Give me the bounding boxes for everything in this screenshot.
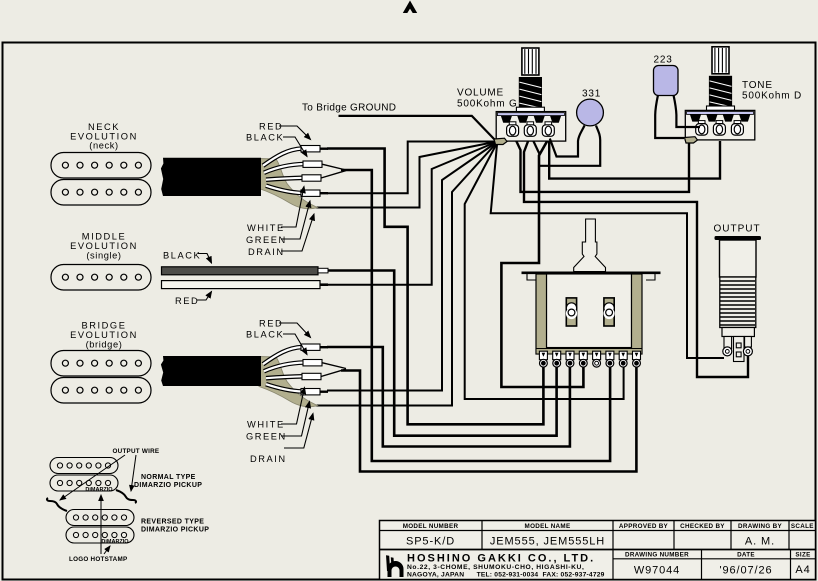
label neck WHITE with arrow bbox=[247, 187, 304, 234]
output jack threaded section bbox=[720, 277, 756, 328]
svg-text:To Bridge GROUND: To Bridge GROUND bbox=[302, 103, 396, 114]
label TONE 500Kohm D bbox=[742, 80, 802, 102]
svg-text:DiMARZIO: DiMARZIO bbox=[85, 487, 113, 493]
svg-text:BLACK: BLACK bbox=[246, 133, 284, 143]
label bridge pickup name bbox=[70, 321, 138, 350]
svg-text:OUTPUT: OUTPUT bbox=[714, 224, 761, 235]
normal type DiMarzio pickup drawing bbox=[50, 458, 118, 494]
svg-text:SP5-K/D: SP5-K/D bbox=[406, 536, 455, 548]
switch lug 5 bbox=[593, 351, 601, 367]
svg-text:500Kohm G: 500Kohm G bbox=[457, 99, 518, 110]
output jack collar bbox=[722, 328, 754, 337]
svg-text:RED: RED bbox=[175, 296, 199, 306]
svg-text:DiMARZIO: DiMARZIO bbox=[101, 539, 129, 545]
svg-text:A. M.: A. M. bbox=[745, 536, 775, 548]
reversed pickup output wire squiggle bbox=[47, 498, 67, 511]
svg-text:OUTPUT WIRE: OUTPUT WIRE bbox=[113, 448, 160, 455]
label neck RED with arrow bbox=[259, 122, 311, 140]
svg-text:WHITE: WHITE bbox=[247, 223, 285, 233]
title block outer frame bbox=[380, 521, 816, 580]
label bridge RED with arrow bbox=[259, 319, 311, 338]
switch lug 8 bbox=[633, 351, 641, 367]
svg-text:'96/07/26: '96/07/26 bbox=[719, 565, 772, 577]
wire neck green to volume ground lug (fan line 1) bbox=[327, 142, 494, 194]
potentiometer VOLUME 500Kohm G shaft bbox=[516, 48, 544, 112]
svg-text:DIMARZIO PICKUP: DIMARZIO PICKUP bbox=[141, 527, 209, 534]
switch lug 3 bbox=[566, 351, 574, 367]
label bridge WHITE with arrow bbox=[247, 388, 305, 430]
capacitor C223 film bbox=[654, 66, 701, 139]
cable neck pickup shield braid bbox=[259, 159, 318, 209]
svg-text:GREEN: GREEN bbox=[246, 235, 287, 245]
potentiometer VOLUME 500Kohm G body bbox=[496, 112, 566, 142]
label NORMAL TYPE DIMARZIO PICKUP bbox=[134, 474, 202, 489]
svg-text:EVOLUTION: EVOLUTION bbox=[70, 241, 138, 251]
title block grid lines bbox=[380, 521, 816, 580]
wire volume lug3 to switch lug4 bbox=[501, 137, 583, 387]
svg-text:TONE: TONE bbox=[742, 80, 773, 91]
label neck GREEN with arrow bbox=[246, 201, 310, 245]
svg-text:EVOLUTION: EVOLUTION bbox=[70, 330, 138, 340]
svg-text:DRAIN: DRAIN bbox=[248, 247, 285, 257]
svg-text:SIZE: SIZE bbox=[795, 552, 810, 559]
svg-text:223: 223 bbox=[654, 55, 673, 66]
volume ground solder lug bbox=[494, 138, 507, 144]
pickup MIDDLE EVOLUTION single coil bbox=[51, 265, 151, 291]
svg-text:500Kohm D: 500Kohm D bbox=[742, 91, 802, 102]
svg-text:REVERSED TYPE: REVERSED TYPE bbox=[141, 519, 204, 526]
output jack barrel bbox=[720, 240, 757, 277]
svg-text:BLACK: BLACK bbox=[163, 251, 201, 261]
svg-text:DRAWING NUMBER: DRAWING NUMBER bbox=[625, 552, 689, 559]
label bridge GREEN with arrow bbox=[246, 402, 310, 442]
wire volume ground lug to volume lug1 link bbox=[504, 132, 513, 141]
svg-text:GREEN: GREEN bbox=[246, 432, 287, 442]
wire middle black to switch lug2 bbox=[328, 271, 557, 436]
label neck pickup name bbox=[70, 122, 138, 151]
label neck BLACK with arrow bbox=[246, 133, 307, 157]
potentiometer TONE 500Kohm D shaft bbox=[707, 47, 735, 111]
switch contact slot A bbox=[566, 298, 577, 326]
svg-text:VOLUME: VOLUME bbox=[457, 88, 504, 99]
title block header texts bbox=[403, 523, 814, 559]
switch lug strip base bbox=[536, 349, 642, 355]
headstock direction arrow bbox=[403, 1, 417, 14]
svg-text:WHITE: WHITE bbox=[247, 420, 285, 430]
cable bridge pickup shield braid bbox=[259, 357, 318, 407]
label neck DRAIN with arrow bbox=[248, 214, 314, 257]
wire volume ground lug to output jack sleeve (fan line 7) bbox=[491, 145, 724, 359]
svg-text:BLACK: BLACK bbox=[246, 330, 284, 340]
svg-text:DRAWING BY: DRAWING BY bbox=[738, 523, 782, 530]
cable bridge pickup leads bbox=[263, 344, 346, 395]
svg-text:DATE: DATE bbox=[737, 552, 755, 559]
pickup BRIDGE EVOLUTION humbucker bbox=[51, 351, 151, 404]
switch lug 7 bbox=[619, 351, 627, 367]
wire neck drain to volume ground lug (fan line 2) bbox=[310, 142, 495, 208]
output jack flange bbox=[715, 236, 762, 240]
svg-text:JEM555, JEM555LH: JEM555, JEM555LH bbox=[490, 536, 605, 548]
wire neck red to switch lug1 bbox=[327, 149, 543, 425]
output jack sleeve prong bbox=[723, 337, 732, 356]
label bridge BLACK with arrow bbox=[246, 330, 307, 355]
wire bridge drain to volume ground lug (fan line 5) bbox=[310, 144, 496, 406]
cable bridge pickup jacket bbox=[161, 356, 261, 386]
svg-text:(neck): (neck) bbox=[89, 141, 118, 151]
svg-text:NECK: NECK bbox=[88, 122, 120, 132]
5-way switch lever bbox=[574, 219, 606, 272]
wire bridge green to volume ground lug (fan line 4) bbox=[327, 143, 496, 391]
svg-text:CHECKED BY: CHECKED BY bbox=[680, 523, 725, 530]
svg-text:No.22, 3-CHOME, SHUMOKU-CHO, H: No.22, 3-CHOME, SHUMOKU-CHO, HIGASHI-KU, bbox=[407, 564, 584, 571]
pickup NECK EVOLUTION humbucker bbox=[51, 153, 151, 206]
svg-text:BRIDGE: BRIDGE bbox=[82, 321, 127, 331]
output jack middle prong bbox=[734, 337, 745, 362]
Hoshino Gakki logo bbox=[386, 555, 404, 577]
svg-text:SCALE: SCALE bbox=[791, 523, 814, 530]
label REVERSED TYPE DIMARZIO PICKUP bbox=[141, 519, 209, 534]
svg-text:DRAIN: DRAIN bbox=[250, 454, 287, 464]
switch lug 4 bbox=[579, 351, 587, 367]
switch side post left bbox=[536, 274, 547, 354]
wire volume lug2 to tone middle lug bbox=[549, 136, 720, 179]
capacitor C331 disc bbox=[539, 99, 603, 166]
normal pickup output wire squiggle bbox=[116, 490, 136, 503]
label middle BLACK with arrow bbox=[163, 251, 212, 264]
svg-text:MODEL NUMBER: MODEL NUMBER bbox=[403, 523, 459, 530]
wire bridge black+white merged to switch lug8 bbox=[341, 364, 636, 472]
label middle pickup name bbox=[70, 232, 138, 261]
svg-text:A4: A4 bbox=[795, 564, 810, 576]
potentiometer TONE 500Kohm D body bbox=[685, 110, 755, 139]
wire volume lug2 to output jack tip bbox=[524, 136, 748, 377]
label VOLUME 500Kohm G bbox=[457, 88, 518, 110]
svg-text:MODEL NAME: MODEL NAME bbox=[525, 523, 571, 530]
middle pickup black wire bar bbox=[162, 267, 329, 275]
switch side post right bbox=[632, 274, 643, 354]
label middle RED with arrow bbox=[175, 292, 212, 307]
svg-text:MIDDLE: MIDDLE bbox=[82, 232, 126, 242]
tone ground solder lug bbox=[685, 137, 698, 143]
svg-text:DIMARZIO PICKUP: DIMARZIO PICKUP bbox=[134, 482, 202, 489]
svg-text:HOSHINO GAKKI CO., LTD.: HOSHINO GAKKI CO., LTD. bbox=[407, 553, 595, 565]
5-way switch mounting plate bbox=[522, 273, 661, 280]
reversed type DiMarzio pickup drawing bbox=[66, 510, 134, 546]
cable neck pickup jacket bbox=[161, 158, 261, 196]
svg-text:W97044: W97044 bbox=[634, 565, 680, 577]
output jack tip prong bbox=[743, 337, 752, 356]
wire middle red to volume ground lug (fan line 3) bbox=[328, 143, 495, 285]
svg-text:331: 331 bbox=[582, 89, 601, 100]
label LOGO HOTSTAMP with arrows bbox=[69, 495, 127, 563]
label OUTPUT WIRE with arrows bbox=[60, 448, 159, 500]
svg-text:NORMAL TYPE: NORMAL TYPE bbox=[141, 474, 196, 481]
switch contact slot B bbox=[604, 298, 615, 326]
cable neck pickup leads bbox=[263, 146, 346, 197]
5-way switch body bbox=[547, 274, 632, 348]
svg-text:NAGOYA, JAPAN TEL: 052-93: NAGOYA, JAPAN TEL: 052-931-0034 FAX: 052… bbox=[407, 571, 605, 578]
switch lug 2 bbox=[553, 351, 561, 367]
middle pickup red wire bar bbox=[162, 281, 329, 289]
label bridge DRAIN with arrow bbox=[250, 414, 313, 465]
wire To Bridge GROUND to volume ground lug bbox=[339, 116, 496, 141]
switch lug 6 bbox=[606, 351, 614, 367]
wire neck black+white merged to switch lug6 bbox=[341, 170, 610, 461]
switch lug 1 bbox=[539, 351, 547, 367]
svg-text:APPROVED BY: APPROVED BY bbox=[619, 523, 669, 530]
title block value texts bbox=[406, 536, 811, 577]
svg-text:LOGO HOTSTAMP: LOGO HOTSTAMP bbox=[69, 556, 127, 563]
wire bridge red to switch lug3 bbox=[327, 347, 570, 447]
svg-text:(bridge): (bridge) bbox=[86, 340, 123, 350]
wire volume lug1 to tone ground lug bbox=[513, 134, 689, 192]
svg-text:(single): (single) bbox=[86, 251, 121, 261]
wire volume ground lug to switch lug7 (fan line 6) bbox=[465, 144, 624, 399]
